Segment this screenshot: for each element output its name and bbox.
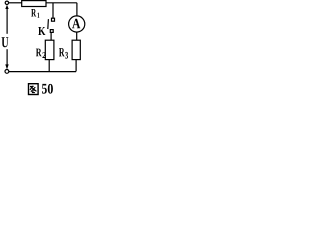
- caption hanzi TU (figure 图) drawn as paths: [29, 84, 39, 95]
- U arrow upper line: [6, 9, 8, 34]
- label K: [38, 27, 45, 35]
- wire bottom: [9, 71, 76, 73]
- switch K bottom contact: [50, 30, 53, 33]
- caption digit 0: [48, 84, 53, 94]
- wire switch to R2: [50, 32, 52, 40]
- wire top from terminal to R1: [9, 2, 22, 4]
- wire right drop to ammeter: [76, 3, 78, 16]
- terminal bottom-left: [5, 70, 9, 74]
- label R3 letter R: [59, 48, 65, 56]
- ammeter A circle: [69, 16, 85, 32]
- U arrow upper head: [5, 5, 8, 9]
- resistor R3: [72, 40, 80, 59]
- label R2 subscript 2: [42, 52, 45, 58]
- wire ammeter to R3: [76, 32, 78, 40]
- resistor R1: [22, 1, 46, 7]
- switch K top contact: [52, 18, 55, 21]
- U arrow lower head: [5, 64, 8, 69]
- caption digit 5: [42, 84, 47, 94]
- label A of ammeter: [72, 19, 80, 28]
- terminal top-left: [5, 1, 8, 4]
- switch K blade: [47, 19, 50, 29]
- wire R2 to bottom wire: [48, 60, 50, 72]
- label R2 letter R: [36, 49, 42, 57]
- U arrow lower line: [6, 49, 8, 64]
- wire junction stub down to switch: [52, 3, 54, 18]
- label R1 subscript 1: [37, 13, 39, 18]
- wire top from R1 to right corner: [46, 2, 77, 4]
- resistor R2: [45, 40, 54, 59]
- label R1 letter R: [31, 9, 36, 16]
- wire R3 to bottom wire: [75, 60, 77, 72]
- label R3 subscript 3: [65, 52, 68, 59]
- label U: [2, 37, 9, 47]
